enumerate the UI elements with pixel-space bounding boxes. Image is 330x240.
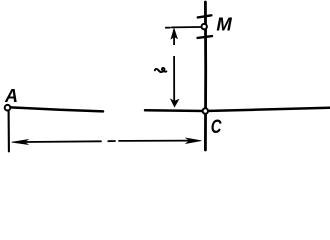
arrowhead right (bottom dimension) <box>186 138 202 144</box>
tick below M <box>198 36 213 38</box>
arrowhead up (dimension l, top) <box>171 28 177 39</box>
wire: left horizontal line from A <box>11 107 104 111</box>
tick above M <box>198 15 212 17</box>
svg-text:M: M <box>216 14 232 35</box>
extension line below A <box>8 111 10 152</box>
arrowhead down (dimension l, bottom) <box>171 99 179 107</box>
node M (open circle) <box>202 24 207 29</box>
bottom dimension line (A to C), segments <box>24 141 189 142</box>
arrowhead left (bottom dimension) <box>12 139 29 144</box>
wire: main vertical line through M and C <box>204 2 207 150</box>
svg-text:C: C <box>211 116 222 137</box>
extension line from M circle to dimension line <box>166 26 201 29</box>
wire: right horizontal line through C <box>145 108 330 111</box>
node C (open circle) <box>203 108 208 113</box>
node A (open circle) <box>5 105 11 111</box>
svg-text:A: A <box>4 86 18 106</box>
label l (rotated script ell) <box>155 68 167 72</box>
dimension line l: vertical shaft <box>173 31 175 104</box>
